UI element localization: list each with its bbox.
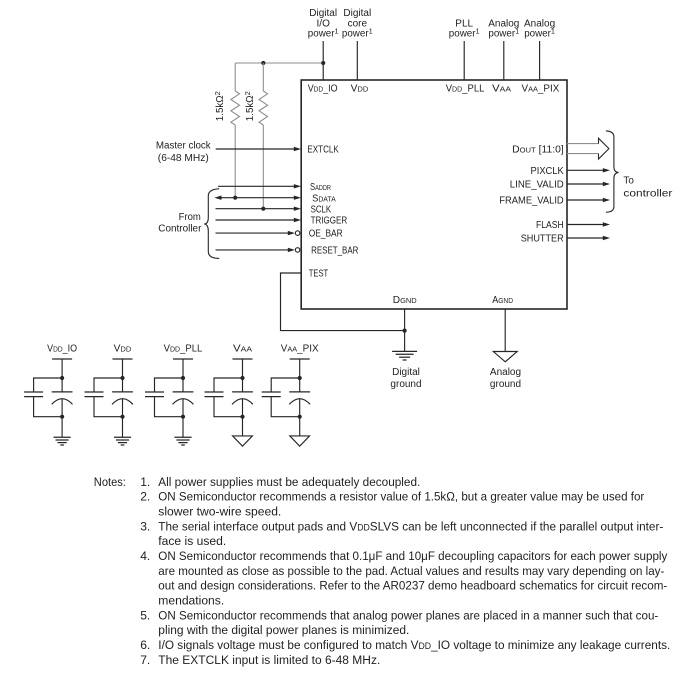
brace To controller group — [606, 131, 619, 212]
power rail bar VDD_PLL — [173, 358, 193, 360]
svg-text:Master clock: Master clock — [156, 140, 212, 151]
wire top pin VDD_IO — [322, 41, 324, 80]
wire OE_BAR with arrow — [216, 231, 296, 235]
pin label VAA_PIX — [522, 84, 560, 95]
capacitor C3 curved plate — [112, 399, 133, 405]
power rail bar VDD — [113, 358, 133, 360]
power rail bar VAA_PIX — [290, 358, 310, 360]
resistor R2 1.5k pull-up on SCLK — [259, 63, 268, 209]
power rail bar VAA — [233, 358, 253, 360]
svg-text:3.: 3. — [140, 519, 150, 533]
wire top pin VAA — [503, 41, 505, 80]
label To controller — [623, 176, 673, 200]
brace From Controller group — [204, 189, 219, 259]
active-low bubble RESET_BAR — [295, 248, 300, 253]
svg-text:1.5kΩ2: 1.5kΩ2 — [243, 91, 256, 121]
wire VDD_IO rail to cap C1 — [61, 359, 63, 392]
svg-text:Digital: Digital — [309, 8, 337, 19]
svg-text:ON Semiconductor recommends th: ON Semiconductor recommends that analog … — [158, 608, 658, 622]
IC U1 image sensor body — [301, 80, 567, 309]
svg-text:4.: 4. — [140, 549, 150, 563]
net label VDD_IO decoupling — [47, 343, 77, 354]
junction dot TEST joins DGND — [403, 329, 407, 333]
junction dot rail at VDD_IO wire — [321, 61, 325, 65]
svg-text:are mounted as close as possib: are mounted as close as possible to the … — [158, 564, 664, 578]
wire SDATA bidirectional arrows — [214, 196, 301, 200]
svg-text:VDD_PLL: VDD_PLL — [446, 84, 485, 95]
wire top pin VDD_PLL — [463, 41, 465, 80]
wire RESET_BAR with arrow — [216, 248, 296, 252]
pin label TRIGGER — [311, 216, 348, 227]
junction dot R1 to SDATA — [233, 196, 237, 200]
capacitor C5 curved plate — [173, 399, 194, 405]
svg-text:6.: 6. — [140, 638, 150, 652]
svg-text:out and design considerations.: out and design considerations. Refer to … — [158, 579, 667, 593]
capacitor C1 curved plate — [52, 399, 73, 405]
junction dot bottom VDD_PLL — [181, 415, 185, 419]
wire VAA_PIX rail to cap C9 — [299, 359, 301, 392]
wire DGND to digital ground — [404, 309, 406, 351]
wire cap C7 to ground — [242, 399, 244, 436]
label VDD_IO power net name — [308, 8, 339, 40]
wire top pin VDD — [356, 41, 358, 80]
wire VDD rail to cap C3 — [122, 359, 124, 392]
svg-text:SCLK: SCLK — [311, 204, 332, 215]
svg-text:power1: power1 — [488, 27, 519, 40]
ground symbol analog (triangle) — [493, 352, 517, 362]
wire FLASH output arrow — [567, 222, 610, 226]
svg-text:1.5kΩ2: 1.5kΩ2 — [213, 91, 226, 121]
label VDD power net name — [342, 8, 373, 40]
capacitor C10 (0.1uF) plates — [262, 392, 281, 397]
wire LINE_VALID output arrow — [567, 182, 610, 186]
svg-text:VDD: VDD — [114, 343, 132, 354]
junction dot R2 to SCLK — [261, 207, 265, 211]
label VAA power net name — [488, 18, 519, 39]
junction dot top VDD_PLL — [181, 376, 185, 380]
capacitor C4 (0.1uF) plates — [85, 392, 104, 397]
svg-text:power1: power1 — [342, 27, 373, 40]
pin label SADDR — [310, 182, 331, 193]
capacitor C7 (10uF polarized) top plate — [232, 391, 253, 393]
pin label DOUT [11:0] — [512, 144, 564, 155]
junction dot top VAA — [240, 376, 244, 380]
svg-text:ON Semiconductor recommends a: ON Semiconductor recommends a resistor v… — [158, 490, 644, 504]
wire PIXCLK output arrow — [567, 168, 610, 172]
wire cap C1 to ground — [61, 399, 63, 437]
svg-text:From: From — [179, 212, 201, 223]
bus arrow DOUT head — [599, 138, 609, 159]
power rail bar VDD_IO — [52, 358, 72, 360]
wire EXTCLK input with arrow — [216, 147, 301, 151]
capacitor C9 curved plate — [289, 399, 310, 405]
wire SADDR with arrow — [218, 184, 301, 188]
svg-text:TRIGGER: TRIGGER — [311, 216, 348, 227]
wire TRIGGER with arrow — [216, 218, 302, 222]
svg-text:SDATA: SDATA — [312, 193, 336, 204]
wire cap C9 to ground — [299, 399, 301, 436]
svg-text:ground: ground — [390, 379, 421, 390]
resistor R1 1.5k pull-up on SDATA — [231, 63, 240, 198]
pin label EXTCLK — [307, 145, 339, 156]
svg-text:TEST: TEST — [309, 269, 329, 280]
net label VAA decoupling — [233, 343, 252, 354]
junction dot bottom VDD_IO — [60, 415, 64, 419]
pin label RESET_BAR — [311, 246, 358, 257]
svg-text:Controller: Controller — [158, 224, 202, 235]
svg-text:power1: power1 — [449, 27, 480, 40]
ground symbol digital (earth) — [392, 351, 417, 360]
value label R1 1.5kOhm (note 2) — [213, 91, 226, 121]
svg-text:OE_BAR: OE_BAR — [309, 229, 343, 240]
svg-text:SHUTTER: SHUTTER — [521, 234, 564, 245]
svg-text:power1: power1 — [308, 27, 339, 40]
pin label SDATA — [312, 193, 336, 204]
pin label VDD_PLL — [446, 84, 485, 95]
junction dot bottom VDD — [120, 415, 124, 419]
wire TEST tied to DGND — [281, 273, 405, 331]
junction dot top VDD — [120, 376, 124, 380]
wire AGND to analog ground — [504, 309, 506, 352]
svg-text:Analog: Analog — [490, 367, 521, 378]
wire left branch to cap C8 — [214, 378, 243, 417]
svg-text:VAA_PIX: VAA_PIX — [281, 343, 319, 354]
net label VDD_PLL decoupling — [164, 343, 203, 354]
pin label VDD — [351, 84, 369, 95]
ground symbol analog triangle for VAA_PIX — [290, 436, 310, 446]
svg-text:FRAME_VALID: FRAME_VALID — [499, 196, 563, 207]
wire left branch to cap C10 — [271, 378, 300, 417]
bus arrow DOUT body — [567, 144, 599, 154]
svg-text:VAA_PIX: VAA_PIX — [522, 84, 560, 95]
capacitor C9 (10uF polarized) top plate — [289, 391, 310, 393]
svg-text:mendations.: mendations. — [158, 593, 224, 607]
pin label SHUTTER — [521, 234, 564, 245]
svg-text:DOUT [11:0]: DOUT [11:0] — [512, 144, 564, 155]
svg-text:(6-48 MHz): (6-48 MHz) — [158, 153, 209, 164]
wire cap C5 to ground — [182, 399, 184, 437]
svg-text:pling with the digital power p: pling with the digital power planes is m… — [158, 623, 409, 637]
svg-text:Digital: Digital — [392, 367, 420, 378]
wire left branch to cap C6 — [155, 378, 184, 417]
wire SCLK with arrow — [216, 207, 302, 211]
svg-text:LINE_VALID: LINE_VALID — [510, 180, 564, 191]
svg-text:VAA: VAA — [233, 343, 252, 354]
ground symbol analog triangle for VAA — [233, 436, 253, 446]
svg-text:RESET_BAR: RESET_BAR — [311, 246, 358, 257]
label Master clock source — [156, 140, 212, 164]
svg-text:Digital: Digital — [343, 8, 371, 19]
svg-text:7.: 7. — [140, 653, 150, 667]
pin label SCLK — [311, 204, 332, 215]
wire cap C3 to ground — [122, 399, 124, 437]
wire left branch to cap C2 — [34, 378, 63, 417]
svg-text:EXTCLK: EXTCLK — [307, 145, 339, 156]
svg-text:All power supplies must be ade: All power supplies must be adequately de… — [158, 475, 420, 489]
svg-text:PIXCLK: PIXCLK — [531, 166, 565, 177]
wire FRAME_VALID output arrow — [567, 198, 610, 202]
wire top pin VAA_PIX — [539, 41, 541, 80]
capacitor C3 (10uF polarized) top plate — [112, 391, 133, 393]
capacitor C2 (0.1uF) plates — [24, 392, 43, 397]
svg-text:To: To — [623, 176, 634, 187]
svg-text:slower two-wire speed.: slower two-wire speed. — [158, 505, 281, 519]
label Digital ground — [390, 367, 421, 390]
junction dot top VDD_IO — [60, 376, 64, 380]
svg-text:VDD_IO: VDD_IO — [308, 84, 338, 95]
svg-text:VDD_IO: VDD_IO — [47, 343, 77, 354]
net label VAA_PIX decoupling — [281, 343, 319, 354]
svg-text:power1: power1 — [524, 27, 555, 40]
wire left branch to cap C4 — [94, 378, 123, 417]
svg-text:2.: 2. — [140, 490, 150, 504]
net label VDD decoupling — [114, 343, 132, 354]
value label R2 1.5kOhm (note 2) — [243, 91, 256, 121]
pin label LINE_VALID — [510, 180, 564, 191]
junction dot bottom VAA_PIX — [298, 415, 302, 419]
capacitor C6 (0.1uF) plates — [145, 392, 164, 397]
junction dot top VAA_PIX — [298, 376, 302, 380]
ground symbol earth for VDD_IO — [54, 437, 71, 445]
svg-text:The EXTCLK input is limited to: The EXTCLK input is limited to 6-48 MHz. — [158, 653, 380, 667]
svg-text:1.: 1. — [140, 475, 150, 489]
pin label FRAME_VALID — [499, 196, 563, 207]
pin label OE_BAR — [309, 229, 343, 240]
svg-text:VAA: VAA — [492, 84, 511, 95]
svg-text:VDD: VDD — [351, 84, 369, 95]
wire pull-up rail from VDD_IO to resistors — [235, 62, 323, 64]
pin label TEST — [309, 269, 329, 280]
ground symbol earth for VDD_PLL — [174, 437, 191, 445]
active-low bubble OE_BAR — [295, 231, 300, 236]
svg-text:VDD_PLL: VDD_PLL — [164, 343, 203, 354]
svg-text:SADDR: SADDR — [310, 182, 331, 193]
label VAA_PIX power net name — [524, 18, 555, 39]
svg-text:face is used.: face is used. — [158, 534, 226, 548]
pin label AGND — [492, 295, 513, 306]
notes text block — [94, 475, 671, 667]
wire VDD_PLL rail to cap C5 — [182, 359, 184, 392]
pin label DGND — [393, 295, 417, 306]
svg-text:ground: ground — [490, 379, 521, 390]
capacitor C8 (0.1uF) plates — [205, 392, 224, 397]
svg-text:FLASH: FLASH — [536, 220, 564, 231]
label VDD_PLL power net name — [449, 18, 480, 39]
label From Controller — [158, 212, 202, 235]
svg-text:Notes:: Notes: — [94, 475, 126, 489]
svg-text:I/O signals voltage must be co: I/O signals voltage must be configured t… — [158, 638, 670, 652]
svg-text:ON Semiconductor recommends th: ON Semiconductor recommends that 0.1μF a… — [158, 549, 668, 563]
label Analog ground — [490, 367, 521, 390]
capacitor C7 curved plate — [232, 399, 253, 405]
svg-text:The serial interface output pa: The serial interface output pads and VDD… — [158, 519, 663, 533]
junction dot rail at R2 top — [261, 61, 265, 65]
svg-text:controller: controller — [623, 188, 673, 199]
pin label VDD_IO — [308, 84, 338, 95]
svg-text:5.: 5. — [140, 608, 150, 622]
capacitor C5 (10uF polarized) top plate — [173, 391, 194, 393]
pin label FLASH — [536, 220, 564, 231]
capacitor C1 (10uF polarized) top plate — [52, 391, 73, 393]
pin label VAA — [492, 84, 511, 95]
ground symbol earth for VDD — [114, 437, 131, 445]
wire VAA rail to cap C7 — [242, 359, 244, 392]
pin label PIXCLK — [531, 166, 565, 177]
junction dot bottom VAA — [240, 415, 244, 419]
svg-text:AGND: AGND — [492, 295, 513, 306]
wire SHUTTER output arrow — [567, 236, 610, 240]
svg-text:DGND: DGND — [393, 295, 417, 306]
